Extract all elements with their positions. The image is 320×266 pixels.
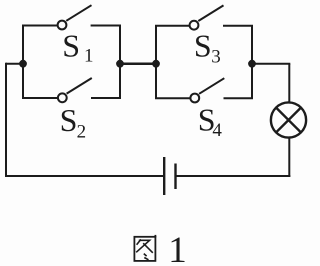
switch S2 [58,78,92,102]
node A (junction dot left of box1) [19,60,27,68]
wire: box1 top branch left segment [22,25,58,27]
wire: box2 bottom branch right segment [224,97,254,99]
battery cell [164,157,175,195]
wire: connector between box1 and box2 [120,62,156,65]
switch S4 [190,78,224,102]
svg-text:1: 1 [168,230,187,266]
svg-text:S1: S1 [62,27,93,66]
wire: right vertical below lamp [288,138,290,178]
svg-text:S3: S3 [194,28,221,68]
node B (junction dot right of box1) [116,60,124,68]
lamp L [271,102,306,137]
wire: box1 bottom branch left segment [22,97,58,99]
switch S1 [58,5,92,29]
switch S3 [190,5,224,29]
caption figure character 图 (drawn) [134,235,155,261]
wire: top right connector from node D to lamp [252,63,290,65]
node D (junction dot right of box2) [248,60,256,68]
wire: right vertical above lamp [288,64,290,103]
wire: box1 left vertical [22,26,24,99]
wire: box2 bottom branch left segment [155,97,190,99]
wire: left vertical of outer loop [5,63,7,177]
wire: box2 top branch right segment [223,25,253,27]
wire: left feed from battery loop to node A [6,63,23,65]
wire: bottom right segment from battery [176,175,291,177]
wire: box2 left vertical [155,26,157,99]
wire: box2 right vertical [251,26,253,99]
node C (junction dot left of box2) [152,60,160,68]
wire: box1 top branch right segment [91,25,121,27]
wire: box1 bottom branch right segment [91,97,121,99]
svg-text:S2: S2 [60,102,87,143]
wire: box2 top branch left segment [155,25,190,27]
wire: box1 right vertical [119,26,121,99]
wire: bottom left segment to battery [5,175,164,177]
svg-text:S4: S4 [198,102,223,141]
